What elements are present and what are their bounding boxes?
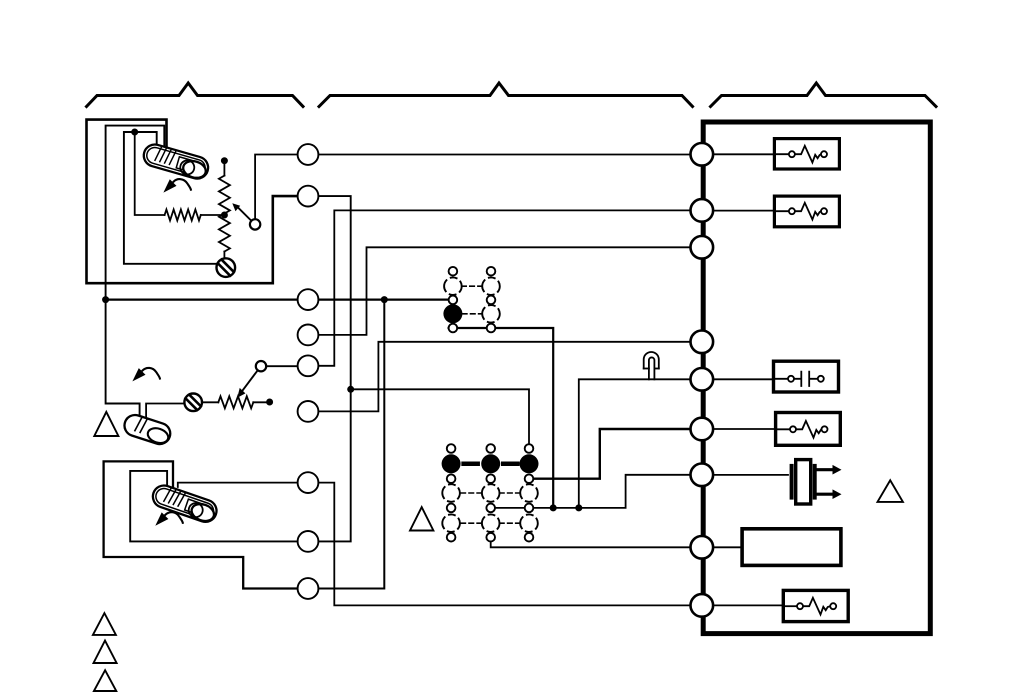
fan switch S2: open contact col2 rowC bbox=[482, 514, 500, 532]
valve/damper symbol (terminal 7) bbox=[790, 466, 794, 498]
system switch S1: pole col2 row3 bbox=[487, 324, 496, 333]
potentiometer R2 heat anticipator (vertical) bbox=[223, 161, 225, 176]
wire: panel lead T9 to relay bbox=[702, 604, 800, 606]
note triangles bottom-left bbox=[93, 613, 116, 635]
contact box (terminal 5) bbox=[774, 361, 839, 392]
fan switch S2: open contact col1 rowB bbox=[442, 484, 460, 502]
fan switch S2: pole col2 row1 bbox=[486, 444, 495, 453]
wire: cooling bulb electrode to screw bbox=[146, 404, 185, 421]
thermostat terminal L3 bbox=[298, 289, 319, 310]
wire: wiper circle up and over to terminal R (left col 1) and on to panel terminal 1 bbox=[255, 155, 702, 221]
wiper arrow of cool anticipator bbox=[243, 370, 259, 391]
fan switch S2: pole col1 row2 bbox=[447, 474, 456, 483]
panel terminal T6 bbox=[691, 418, 714, 441]
fan switch S2: pole col1 row3 bbox=[447, 504, 456, 513]
rotation arrow under heating bulb bbox=[163, 179, 191, 192]
system switch S1: dashed link row B bbox=[462, 313, 482, 315]
system switch S1: open contact col2 rowA bbox=[482, 277, 500, 295]
fan switch S2: pole col3 row4 bbox=[525, 533, 534, 542]
panel terminal T5 bbox=[691, 368, 714, 391]
node: junction C on common bus bbox=[381, 296, 388, 303]
wire: panel terminal 5 line down to fan-switch bus bbox=[579, 379, 702, 508]
wire: system switch output down to fan-switch bus bbox=[449, 328, 554, 508]
node: potentiometer tap junction bbox=[221, 212, 228, 219]
wire: fan switch col3 to panel terminal 6 bbox=[533, 429, 702, 479]
wire: thermostat3 inner loop to c8 bbox=[130, 471, 308, 542]
thermostat terminal L7 bbox=[298, 472, 319, 493]
fan switch S2: closed contact col3 rowA bbox=[520, 454, 539, 473]
fan switch S2: dashed link row 1 seg1 bbox=[461, 492, 482, 494]
wire: panel lead T8 to fan box bbox=[702, 546, 743, 548]
relay coil box (terminal 6) bbox=[776, 413, 841, 446]
system switch S1: dashed link row A bbox=[462, 285, 483, 287]
thermostat terminal L9 bbox=[298, 578, 319, 599]
mercury bulb of lower heating thermostat bbox=[150, 483, 220, 525]
rotation arrow above cooling bulb bbox=[132, 368, 160, 381]
wire: thermostat1 inner loop to anticipator screw bbox=[124, 132, 217, 264]
note triangle beside fan switch bbox=[410, 507, 433, 530]
fan switch S2: dashed link row 1 seg2 bbox=[500, 492, 521, 494]
panel terminal T4 bbox=[691, 331, 714, 354]
system switch S1: pole col2 row2 bbox=[487, 296, 496, 305]
wire: c3 branch down to c9 bbox=[308, 300, 384, 589]
node: junction F on fan bus bbox=[575, 504, 582, 511]
fan switch S2: pole col2 row2 bbox=[486, 474, 495, 483]
node: potentiometer top terminal dot bbox=[221, 157, 228, 164]
wire: thermostat3 outer loop to c9 bbox=[104, 461, 308, 588]
thermostat terminal L4 bbox=[298, 325, 319, 346]
note triangle inside panel bbox=[878, 480, 903, 502]
panel terminal T7 bbox=[691, 464, 714, 487]
wire: c7 down and across to panel terminal 9 bbox=[308, 483, 702, 606]
wire: panel lead T7 to valve bbox=[702, 474, 788, 476]
rotation arrow under lower bulb bbox=[155, 512, 183, 525]
wire: cooling wiper to c5 bbox=[261, 365, 308, 367]
wiper arrow of heat anticipator potentiometer bbox=[238, 208, 252, 222]
fan switch S2: pole col2 row4 bbox=[486, 533, 495, 542]
system switch S1: pole col1 row2 bbox=[449, 296, 458, 305]
wire: thermostat1 outer loop from bulb electrode to terminal S2 bbox=[87, 120, 309, 284]
mercury bulb of heating thermostat bbox=[141, 142, 211, 181]
wire: thermostat1 middle loop down to cooling bulb bbox=[106, 126, 165, 418]
thermostat terminal L1 bbox=[298, 144, 319, 165]
thermostat terminal L5 bbox=[298, 355, 319, 376]
fan switch S2: open contact col2 rowB bbox=[482, 484, 500, 502]
panel border (equipment box) bbox=[703, 122, 930, 634]
system switch S1: pole col1 row1 bbox=[449, 267, 458, 276]
screw terminal (cool anticipator) bbox=[184, 394, 202, 412]
wire: c4 up to panel terminal 3 bbox=[308, 247, 702, 335]
panel terminal T3 bbox=[691, 236, 714, 259]
brace over thermostat section bbox=[87, 83, 304, 107]
fan switch S2: pole col1 row4 bbox=[447, 533, 456, 542]
wire: c6 up to panel terminal 4 bbox=[308, 342, 702, 412]
wire: branch from inner loop down to fixed resistor bbox=[135, 132, 165, 215]
wire: branch from c2 riser to system-switch col3 bbox=[351, 389, 529, 444]
system switch S1: pole col2 row1 bbox=[487, 267, 496, 276]
wire: panel lead T2 to cool relay bbox=[702, 210, 792, 212]
fan switch S2: pole col1 row1 bbox=[447, 444, 456, 453]
fan box (terminal 8, empty rectangle) bbox=[742, 529, 841, 566]
resistor R1 heat anticipator fixed resistor bbox=[165, 210, 201, 221]
fan switch S2: closed contact col2 rowA bbox=[481, 454, 500, 473]
wire: panel lead T6 bbox=[702, 428, 793, 430]
thermostat terminal L6 bbox=[298, 401, 319, 422]
screw terminal (heat anticipator) bbox=[217, 258, 236, 277]
panel terminal T1 bbox=[691, 143, 714, 166]
brace over wiring section bbox=[319, 83, 693, 107]
system switch S1: closed contact col1 rowB bbox=[443, 304, 462, 323]
resistor R3 cooling anticipator bbox=[202, 401, 219, 403]
fan switch S2: open contact col1 rowC bbox=[442, 514, 460, 532]
wire: common bus from cooling stat junction to system switch (c3 line) bbox=[106, 299, 449, 301]
node: junction B on common bus bbox=[102, 296, 109, 303]
node: junction E on fan bus bbox=[550, 504, 557, 511]
wire: fan switch col2 bottom to panel terminal 8 bbox=[491, 542, 702, 548]
fan switch S2: dashed link row 2 seg1 bbox=[461, 522, 482, 524]
fan switch S2: pole col3 row3 bbox=[525, 504, 534, 513]
wire: resistor to potentiometer tap bbox=[201, 214, 225, 216]
fan switch S2: open contact col3 rowC bbox=[520, 514, 538, 532]
wire: panel lead T5 to limit contacts bbox=[702, 378, 791, 380]
wire: terminal Y (c2) across bbox=[308, 196, 351, 541]
node: cool anticipator tap dot bbox=[266, 399, 273, 406]
node: junction D on Y riser bbox=[347, 386, 354, 393]
fan switch S2: closed link row A seg1 bbox=[464, 462, 478, 467]
fan switch S2: pole col3 row1 bbox=[525, 444, 534, 453]
fan switch S2: dashed link row 2 seg2 bbox=[500, 522, 521, 524]
fan switch S2: pole col2 row3 bbox=[486, 504, 495, 513]
relay coil box (terminal 9) bbox=[783, 590, 848, 621]
fan switch S2: pole col3 row2 bbox=[525, 474, 534, 483]
panel terminal T9 bbox=[691, 594, 714, 617]
system switch S1: pole col1 row3 bbox=[449, 324, 458, 333]
node: junction A heat stat loop bbox=[131, 129, 138, 136]
fan switch S2: closed contact col1 rowA bbox=[442, 454, 461, 473]
wire: fan switch row to panel terminal 7 bbox=[491, 475, 702, 508]
fan switch S2: open contact col3 rowB bbox=[520, 484, 538, 502]
relay coil box (terminal 2) bbox=[774, 196, 839, 227]
panel terminal T8 bbox=[691, 536, 714, 559]
note triangle beside cooling thermostat bbox=[94, 412, 118, 436]
system switch S1: open contact col1 rowA bbox=[444, 277, 462, 295]
relay coil box (terminal 1) bbox=[774, 139, 839, 169]
panel terminal T2 bbox=[691, 199, 714, 222]
thermostat terminal L2 bbox=[298, 186, 319, 207]
system switch S1: open contact col2 rowB bbox=[482, 305, 500, 323]
mercury bulb of cooling thermostat bbox=[122, 412, 173, 446]
wire: panel lead T1 to heat relay bbox=[702, 153, 792, 155]
brace over panel section bbox=[711, 83, 937, 107]
wire: c5 up to panel terminal 2 bbox=[308, 210, 702, 365]
thermostat terminal L8 bbox=[298, 531, 319, 552]
fan switch S2: closed link row A seg2 bbox=[503, 462, 517, 467]
wire: thermostat3 bulb to c7 bbox=[178, 483, 308, 487]
indicator lamp on terminal-5 wire bbox=[644, 352, 659, 369]
